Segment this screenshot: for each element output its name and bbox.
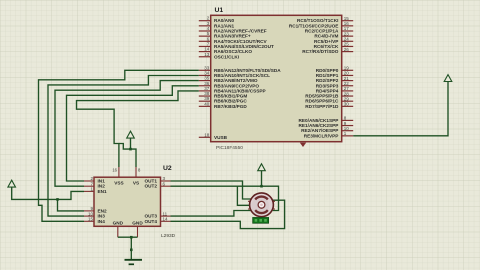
svg-text:RD7/SPP7/P1D: RD7/SPP7/P1D <box>305 104 339 109</box>
svg-text:16: 16 <box>112 168 117 173</box>
svg-text:OUT4: OUT4 <box>144 219 157 224</box>
svg-text:OSC1/CLKI: OSC1/CLKI <box>214 54 239 59</box>
svg-text:GND: GND <box>132 221 143 226</box>
svg-text:26: 26 <box>344 47 350 52</box>
svg-text:EN1: EN1 <box>98 189 108 194</box>
svg-text:RB7/KBI3/PGD: RB7/KBI3/PGD <box>214 104 247 109</box>
svg-text:GND: GND <box>113 221 124 226</box>
svg-text:18: 18 <box>204 132 210 137</box>
svg-text:RE3/MCLR/VPP: RE3/MCLR/VPP <box>304 133 339 138</box>
svg-text:40: 40 <box>204 101 210 106</box>
svg-text:VUSB: VUSB <box>214 135 228 140</box>
svg-text:U2: U2 <box>163 165 172 172</box>
svg-text:13: 13 <box>204 52 210 57</box>
svg-text:IN4: IN4 <box>98 219 106 224</box>
svg-text:VSS: VSS <box>114 181 123 186</box>
svg-text:U1: U1 <box>215 7 224 14</box>
svg-text:30: 30 <box>344 102 350 107</box>
svg-text:VS: VS <box>133 181 139 186</box>
svg-text:PIC18F4550: PIC18F4550 <box>216 145 243 151</box>
svg-text:L293D: L293D <box>161 233 176 239</box>
svg-text:OUT2: OUT2 <box>144 184 157 189</box>
svg-text:14: 14 <box>163 217 169 222</box>
svg-text:RC7/RX/DT/SDO: RC7/RX/DT/SDO <box>302 49 339 54</box>
svg-text:15: 15 <box>88 217 94 222</box>
